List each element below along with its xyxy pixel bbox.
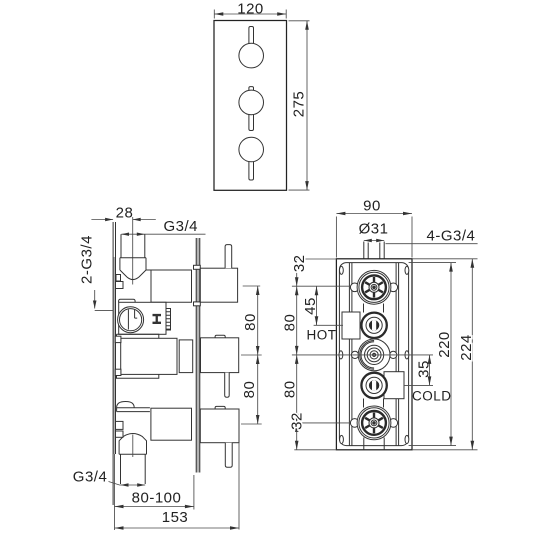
- 220 bottom extension: [409, 445, 456, 447]
- wall screw 2a: [115, 336, 121, 342]
- slot mid-right: [405, 351, 409, 359]
- wall screw bracket 3b: [116, 431, 124, 437]
- knob2 port (hot): [361, 313, 386, 338]
- wall extension to dims: [114, 454, 116, 530]
- valve2 cap circle: [118, 307, 144, 333]
- dim 224 line: [471, 259, 473, 450]
- svg-text:35: 35: [415, 360, 432, 378]
- bottom outlet stub: [364, 438, 384, 450]
- G3/4 top leader line: [121, 233, 205, 235]
- wall face lines: [113, 222, 115, 505]
- valve1 top stub: [225, 245, 232, 269]
- valve3 dome cap: [117, 402, 150, 412]
- valve2 rear tab: [215, 335, 225, 338]
- 224 top extension: [412, 258, 478, 260]
- valve3 rear tab: [215, 406, 225, 409]
- svg-text:224: 224: [458, 334, 475, 361]
- housing inner plate: [339, 263, 408, 446]
- dim 120 extension lines: [214, 10, 286, 19]
- svg-text:G3/4: G3/4: [164, 218, 199, 235]
- valve2 drain stub: [225, 373, 230, 398]
- 153 extension line: [238, 443, 240, 530]
- wall screw 2b: [115, 369, 121, 375]
- valve2 rear body: [201, 338, 239, 373]
- dim 45 line: [316, 286, 318, 325]
- knob1 ears: [350, 283, 359, 292]
- knob1 spline wheel: [357, 270, 391, 304]
- knob4 port (cold): [361, 373, 386, 398]
- pipe between knob1 and knob2: [364, 304, 384, 313]
- dim 90 extension lines: [336, 217, 412, 258]
- 224 bottom extension: [412, 449, 478, 451]
- valve1 inlet pipe: [121, 234, 145, 258]
- wall screw bracket 3a: [116, 421, 124, 429]
- slot bottom-left: [340, 435, 344, 443]
- svg-text:80-100: 80-100: [132, 490, 182, 507]
- valve3 rear body: [200, 409, 239, 443]
- svg-text:80: 80: [282, 314, 299, 332]
- lever knob 1 handle: [249, 27, 254, 45]
- dim 120 line: [214, 13, 286, 15]
- knob5 ears: [350, 419, 359, 428]
- LEFT VIEW: [73, 205, 262, 531]
- valve2 cap: [119, 299, 136, 302]
- centerline knob1 row: [292, 285, 350, 287]
- centerline knob5 row: [292, 422, 350, 424]
- valve3 arch: [119, 434, 146, 455]
- 4-G3/4 leader: [386, 243, 478, 245]
- dim Ø31 arrows: [364, 240, 384, 242]
- hot row extension: [314, 324, 343, 326]
- svg-text:4-G3/4: 4-G3/4: [427, 228, 476, 245]
- H mark: [153, 314, 162, 324]
- slot top-right: [405, 266, 409, 274]
- dim 153 line: [115, 527, 240, 529]
- dim 275 line: [306, 21, 308, 190]
- knob5 spline wheel: [357, 406, 391, 440]
- knob 2 nub: [249, 87, 254, 91]
- slot bottom-right: [405, 435, 409, 443]
- slot top-left: [340, 266, 344, 274]
- svg-text:32: 32: [291, 254, 308, 272]
- cold row extension: [404, 384, 433, 386]
- dim 80 vertical line: [257, 286, 259, 424]
- REAR VIEW: [282, 198, 478, 450]
- svg-text:32: 32: [289, 412, 306, 430]
- svg-text:80: 80: [241, 381, 258, 399]
- wall screw bracket 1b: [116, 282, 124, 289]
- svg-text:HOT: HOT: [307, 328, 337, 343]
- knob 3 handle: [249, 161, 254, 180]
- svg-text:80: 80: [242, 313, 259, 331]
- valve1 plate collar top: [194, 265, 201, 269]
- top inlet stub: [364, 242, 384, 259]
- 220 top extension: [409, 262, 456, 264]
- svg-text:120: 120: [237, 0, 264, 17]
- svg-text:275: 275: [291, 91, 308, 118]
- dim 220 line: [450, 263, 452, 446]
- HOT tab: [342, 312, 360, 339]
- dim 80-100 line: [115, 506, 194, 508]
- valve2 connector: [179, 340, 193, 373]
- bottom-left extension for 32: [294, 449, 336, 451]
- svg-text:28: 28: [116, 205, 134, 222]
- knob 2: [239, 90, 264, 115]
- svg-text:220: 220: [436, 331, 453, 358]
- valve2 ribs: [166, 309, 171, 331]
- knob 1: [239, 43, 264, 68]
- left dim column: [296, 259, 298, 450]
- center rails: [349, 263, 398, 446]
- svg-text:90: 90: [363, 198, 381, 215]
- svg-text:Ø31: Ø31: [359, 221, 389, 238]
- dim 275 extension lines: [289, 21, 310, 190]
- svg-text:G3/4: G3/4: [73, 469, 108, 486]
- valve2 upper shelf: [117, 334, 159, 338]
- COLD tab: [384, 372, 404, 399]
- dim 35 line: [429, 355, 431, 386]
- valve1 pipe shoulder and funnel: [120, 258, 146, 280]
- valve2 main housing: [121, 338, 177, 374]
- trim plate: [214, 21, 287, 191]
- svg-text:2-G3/4: 2-G3/4: [79, 235, 96, 284]
- svg-text:COLD: COLD: [412, 389, 452, 404]
- dim 80 extension lines right: [241, 286, 262, 424]
- slot mid-left: [339, 351, 343, 359]
- dim 80-100 extension: [193, 475, 195, 510]
- G3/4 bottom leader: [109, 482, 146, 486]
- valve1 plate collar bottom: [194, 302, 201, 306]
- valve3 drain stub: [225, 443, 232, 468]
- FRONT VIEW: [214, 0, 310, 190]
- knob 2 handle: [249, 114, 254, 130]
- centerline knob3 row: [292, 354, 433, 356]
- valve1 front housing: [146, 270, 192, 302]
- valve3 front housing: [151, 408, 192, 440]
- svg-text:153: 153: [162, 509, 189, 526]
- valve1 rear body: [200, 268, 237, 302]
- knob3 ears: [351, 351, 358, 358]
- pipe between knob4 and knob5: [364, 399, 384, 408]
- housing outer box: [336, 259, 412, 450]
- wall hatch: [113, 257, 115, 454]
- wall screw bracket 1a: [116, 275, 121, 282]
- valve2 circle detail: [128, 310, 137, 330]
- mounting plate: [196, 238, 199, 473]
- svg-text:80: 80: [282, 380, 299, 398]
- 2-G3/4 leader arrow: [95, 290, 113, 310]
- valve3 outlet pipe: [121, 454, 146, 484]
- dim 90 line: [336, 213, 412, 215]
- valve2 lower shelf: [117, 374, 159, 378]
- knob 3: [239, 137, 264, 162]
- top-left extension for 32: [303, 258, 337, 260]
- svg-text:45: 45: [302, 297, 319, 315]
- valve3 centerline: [132, 435, 134, 458]
- valve2 cartridge box: [119, 302, 166, 334]
- dim 28 line with outside arrows: [91, 219, 155, 221]
- knob3 middle mixer: [358, 339, 390, 371]
- valve1 centerline: [132, 217, 134, 285]
